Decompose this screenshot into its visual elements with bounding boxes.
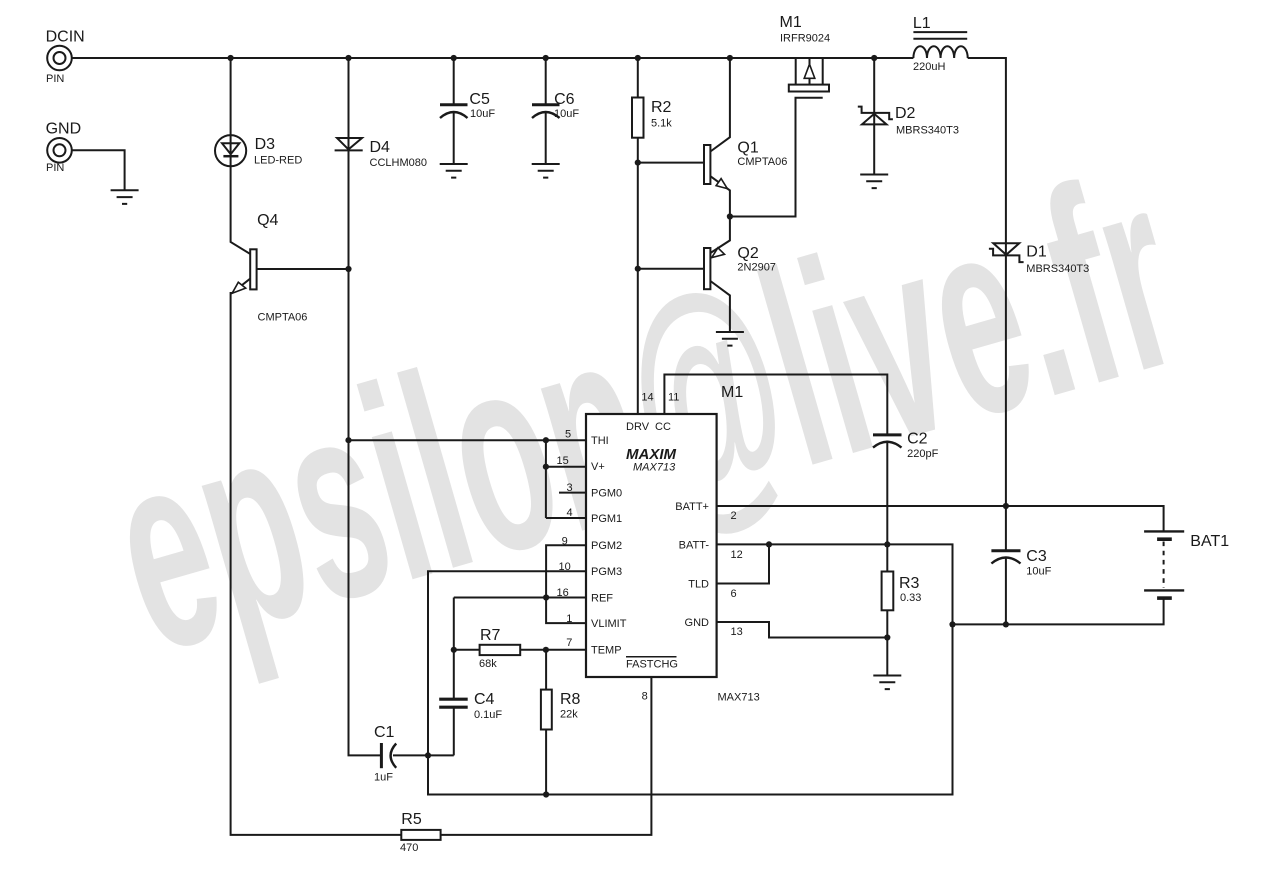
svg-text:C2: C2 <box>907 431 928 448</box>
svg-text:15: 15 <box>557 455 569 467</box>
svg-text:2: 2 <box>731 510 737 522</box>
svg-text:R3: R3 <box>899 575 920 592</box>
svg-text:6: 6 <box>731 588 737 600</box>
svg-text:PGM1: PGM1 <box>591 513 622 525</box>
svg-text:V+: V+ <box>591 461 605 473</box>
svg-text:R8: R8 <box>560 691 581 708</box>
svg-text:TEMP: TEMP <box>591 645 622 657</box>
svg-text:BAT1: BAT1 <box>1190 533 1229 550</box>
svg-text:MBRS340T3: MBRS340T3 <box>896 125 959 137</box>
svg-text:68k: 68k <box>479 658 497 670</box>
svg-text:C5: C5 <box>469 91 490 108</box>
svg-text:220pF: 220pF <box>907 448 938 460</box>
svg-text:5.1k: 5.1k <box>651 118 672 130</box>
svg-text:1: 1 <box>566 613 572 625</box>
svg-text:REF: REF <box>591 593 613 605</box>
svg-text:L1: L1 <box>913 15 931 32</box>
svg-text:MBRS340T3: MBRS340T3 <box>1026 263 1089 275</box>
svg-text:13: 13 <box>731 626 743 638</box>
svg-text:10: 10 <box>559 561 571 573</box>
svg-text:7: 7 <box>566 637 572 649</box>
svg-text:8: 8 <box>642 691 648 703</box>
svg-text:GND: GND <box>46 121 82 138</box>
svg-text:10uF: 10uF <box>470 108 495 120</box>
svg-text:10uF: 10uF <box>1026 566 1051 578</box>
svg-text:9: 9 <box>562 536 568 548</box>
svg-text:MAX713: MAX713 <box>718 692 760 704</box>
svg-text:1uF: 1uF <box>374 772 393 784</box>
svg-text:Q4: Q4 <box>257 212 278 229</box>
svg-text:VLIMIT: VLIMIT <box>591 618 627 630</box>
svg-text:Q1: Q1 <box>737 140 758 157</box>
svg-text:D2: D2 <box>895 105 916 122</box>
svg-text:11: 11 <box>668 392 679 404</box>
svg-text:3: 3 <box>567 482 573 494</box>
svg-text:CC: CC <box>655 421 671 433</box>
svg-text:IRFR9024: IRFR9024 <box>780 33 830 45</box>
svg-text:D4: D4 <box>370 139 391 156</box>
svg-text:LED-RED: LED-RED <box>254 155 302 167</box>
svg-text:4: 4 <box>567 507 573 519</box>
svg-text:14: 14 <box>641 392 653 404</box>
svg-text:THI: THI <box>591 435 609 447</box>
svg-text:GND: GND <box>685 617 710 629</box>
svg-text:PGM3: PGM3 <box>591 566 622 578</box>
svg-text:0.33: 0.33 <box>900 592 921 604</box>
svg-text:DRV: DRV <box>626 421 650 433</box>
svg-text:12: 12 <box>731 549 743 561</box>
svg-text:D3: D3 <box>255 136 276 153</box>
svg-text:CMPTA06: CMPTA06 <box>737 156 787 168</box>
svg-text:BATT+: BATT+ <box>675 501 709 513</box>
svg-text:DCIN: DCIN <box>46 29 85 46</box>
svg-text:22k: 22k <box>560 709 578 721</box>
svg-text:PGM2: PGM2 <box>591 540 622 552</box>
svg-text:0.1uF: 0.1uF <box>474 709 502 721</box>
svg-text:CMPTA06: CMPTA06 <box>258 312 308 324</box>
svg-text:MAXIM: MAXIM <box>626 446 677 463</box>
svg-text:Q2: Q2 <box>737 245 758 262</box>
svg-text:TLD: TLD <box>688 579 709 591</box>
svg-text:220uH: 220uH <box>913 61 945 73</box>
svg-text:BATT-: BATT- <box>679 540 710 552</box>
svg-text:C3: C3 <box>1026 548 1047 565</box>
svg-text:16: 16 <box>557 587 569 599</box>
svg-text:C4: C4 <box>474 691 495 708</box>
svg-text:M1: M1 <box>721 384 743 401</box>
svg-text:PIN: PIN <box>46 73 64 85</box>
svg-text:C1: C1 <box>374 724 395 741</box>
svg-text:M1: M1 <box>780 14 802 31</box>
svg-text:D1: D1 <box>1026 244 1047 261</box>
svg-text:C6: C6 <box>554 91 575 108</box>
svg-text:FASTCHG: FASTCHG <box>626 659 678 671</box>
svg-text:PIN: PIN <box>46 162 64 174</box>
svg-text:CCLHM080: CCLHM080 <box>370 157 427 169</box>
svg-text:R5: R5 <box>401 811 422 828</box>
svg-text:2N2907: 2N2907 <box>737 262 776 274</box>
svg-text:PGM0: PGM0 <box>591 488 622 500</box>
svg-text:5: 5 <box>565 429 571 441</box>
svg-text:470: 470 <box>400 842 418 854</box>
svg-text:MAX713: MAX713 <box>633 462 676 474</box>
svg-text:R7: R7 <box>480 627 501 644</box>
svg-text:R2: R2 <box>651 99 672 116</box>
svg-text:10uF: 10uF <box>554 108 579 120</box>
